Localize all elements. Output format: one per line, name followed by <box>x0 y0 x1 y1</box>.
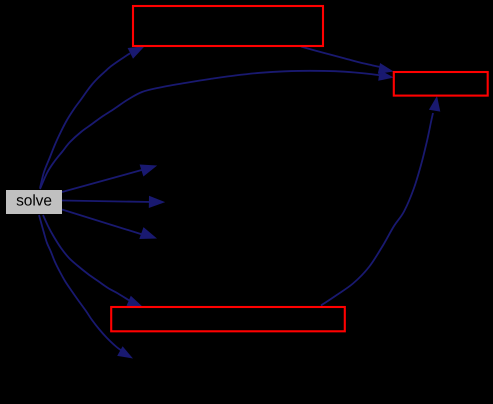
node right-box <box>394 72 488 96</box>
edge top-box->right-box <box>301 47 394 74</box>
node solve <box>6 190 62 214</box>
node top-box <box>133 6 323 46</box>
edge solve->hidden-node-4 <box>39 215 133 359</box>
edge solve->bottom-box <box>43 215 143 307</box>
edge solve->top-box <box>40 46 145 188</box>
edge solve->right-box <box>40 70 394 189</box>
edge solve->hidden-node-1 <box>62 165 157 193</box>
edge solve->hidden-node-3 <box>62 210 157 240</box>
node bottom-box <box>111 307 345 331</box>
edge solve->hidden-node-2 <box>62 196 165 208</box>
edge bottom-box->right-box <box>321 96 440 306</box>
svg-text:solve: solve <box>16 193 52 210</box>
